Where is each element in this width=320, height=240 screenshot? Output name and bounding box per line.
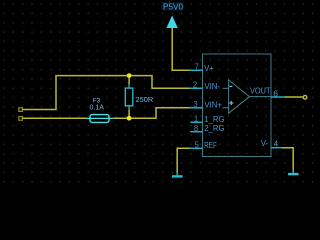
inner line inverting input	[223, 87, 229, 89]
op-amp U1 body	[203, 54, 272, 157]
wire REF to ground	[177, 148, 190, 172]
svg-text:5: 5	[195, 141, 200, 150]
svg-text:P5V0: P5V0	[163, 2, 183, 11]
pin 8	[190, 131, 202, 133]
svg-text:0.1A: 0.1A	[89, 105, 104, 112]
terminal upper input	[19, 108, 23, 112]
resistor 250R	[125, 84, 133, 110]
fuse F3	[86, 115, 114, 123]
svg-text:2: 2	[193, 81, 197, 90]
wire VOUT	[285, 96, 303, 98]
svg-text:3: 3	[193, 100, 197, 109]
ground right	[288, 170, 299, 174]
pin 4	[271, 147, 283, 149]
wire P5V0 to pin 7	[172, 28, 190, 71]
minus sign	[229, 85, 232, 87]
pin 3	[190, 107, 203, 109]
wire upper input to pin 2	[23, 76, 191, 110]
svg-text:F3: F3	[93, 97, 101, 104]
svg-text:VIN+: VIN+	[204, 101, 222, 110]
power port P5V0 arrow	[166, 15, 177, 28]
junction lower	[127, 116, 132, 121]
wire lower input to fuse	[23, 117, 87, 119]
pin 6	[271, 96, 286, 98]
inner output line	[250, 96, 272, 98]
pin 2	[190, 87, 203, 89]
power port P5V0 label	[162, 2, 184, 11]
pin 7	[190, 69, 203, 71]
svg-text:VOUT: VOUT	[250, 87, 271, 96]
svg-text:6: 6	[273, 90, 278, 99]
wire resistor branch	[128, 76, 130, 85]
svg-text:V-: V-	[261, 139, 269, 148]
svg-text:1_RG: 1_RG	[204, 115, 224, 124]
pin 1	[190, 121, 202, 123]
svg-text:REF: REF	[204, 141, 217, 150]
svg-text:4: 4	[274, 139, 279, 148]
terminal VOUT	[303, 96, 307, 100]
terminal lower input	[19, 117, 23, 121]
ground left	[172, 172, 183, 176]
svg-text:7: 7	[194, 63, 198, 72]
inner line non-inverting input	[223, 107, 229, 109]
pin 5	[190, 147, 203, 149]
wire V- to ground	[282, 148, 293, 171]
junction upper	[127, 73, 132, 78]
svg-text:250R: 250R	[136, 95, 154, 104]
plus sign	[229, 101, 233, 105]
svg-text:V+: V+	[204, 64, 214, 73]
svg-text:1: 1	[194, 115, 198, 124]
svg-text:8: 8	[194, 124, 198, 133]
op-amp triangle	[229, 80, 250, 113]
svg-text:2_RG: 2_RG	[204, 124, 224, 133]
svg-text:VIN-: VIN-	[204, 82, 220, 91]
wire fuse to pin 3	[114, 108, 191, 119]
